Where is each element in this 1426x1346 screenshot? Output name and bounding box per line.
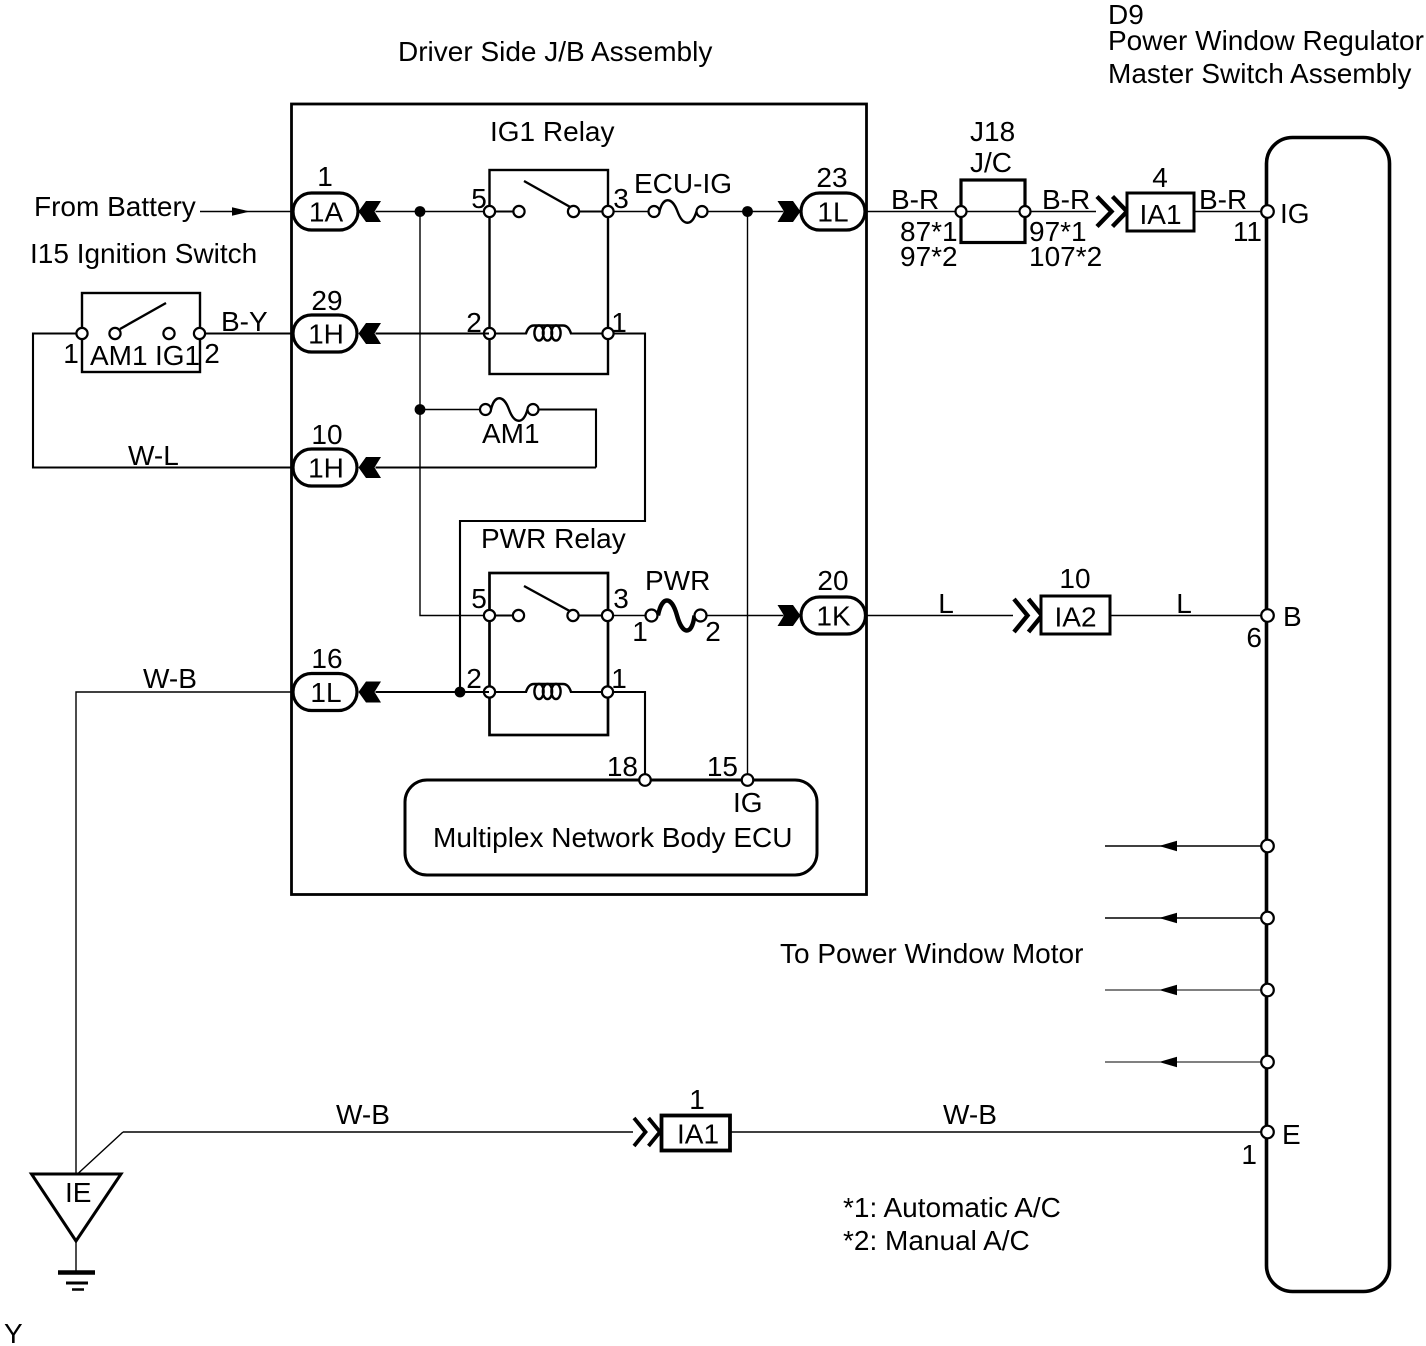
box: Driver Side J/B Assembly — [292, 104, 867, 895]
svg-text:18: 18 — [607, 751, 638, 782]
connector 1K pin 20 — [778, 565, 866, 634]
wire: IG1 coil pin 1 to PWR coil feed — [460, 334, 645, 693]
wire: power window motor line 2 with arrow — [1105, 913, 1267, 923]
pin 15 terminal on ECU — [707, 751, 763, 818]
svg-text:1: 1 — [611, 663, 627, 694]
wire: 1H/10 to AM1 fuse drop — [376, 466, 597, 468]
wire: IA1 to D9 pin 1 E, W-B — [731, 1131, 1267, 1133]
svg-text:1: 1 — [632, 616, 648, 647]
svg-text:L: L — [1176, 588, 1192, 619]
wire: 1K/20 to IA2 splice, L — [866, 615, 1014, 617]
svg-text:2: 2 — [705, 616, 721, 647]
switch I15 ignition switch body — [76, 293, 205, 372]
svg-text:3: 3 — [613, 583, 629, 614]
svg-text:J/C: J/C — [970, 147, 1012, 178]
wire: ground stem — [75, 1241, 77, 1272]
wire: ground W-B run to IA1 splice — [78, 1132, 633, 1174]
connector IA1 pin 1 (ground) — [662, 1084, 731, 1151]
wire: power window motor line 1 with arrow — [1105, 841, 1267, 851]
label: D9 Power Window Regulator Master Switch Assembly — [1108, 0, 1424, 89]
wire: 1L/16 to PWR relay coil pin 2 — [376, 691, 490, 693]
wire: PWR fuse feed — [614, 615, 784, 617]
relay IG1 body — [490, 170, 609, 374]
fuse ECU-IG — [649, 200, 708, 223]
svg-text:IG1 Relay: IG1 Relay — [490, 116, 615, 147]
svg-text:11: 11 — [1233, 216, 1262, 247]
svg-text:Driver Side J/B Assembly: Driver Side J/B Assembly — [398, 36, 712, 67]
pin 1 E terminal on D9 — [1241, 1119, 1300, 1170]
svg-text:1A: 1A — [309, 197, 344, 228]
connector 1H pin 29 — [293, 285, 381, 352]
svg-text:29: 29 — [311, 285, 342, 316]
svg-text:16: 16 — [311, 643, 342, 674]
svg-text:4: 4 — [1152, 162, 1168, 193]
wire: 1A to IG1 relay pin 5 — [376, 211, 490, 213]
svg-text:W-B: W-B — [336, 1099, 390, 1130]
svg-text:Multiplex Network Body ECU: Multiplex Network Body ECU — [433, 822, 792, 853]
IG1 relay contact pins 5 and 3 — [484, 181, 614, 217]
fuse PWR — [646, 601, 707, 631]
svg-text:IG: IG — [733, 787, 763, 818]
svg-text:From Battery: From Battery — [34, 191, 196, 222]
fuse AM1 — [480, 398, 539, 421]
wire: W-B ground wire from 1L/16 — [76, 692, 293, 1173]
svg-text:AM1: AM1 — [482, 418, 540, 449]
relay PWR body — [490, 573, 609, 735]
svg-text:PWR Relay: PWR Relay — [481, 523, 626, 554]
svg-text:1H: 1H — [308, 453, 344, 484]
connector 1A pin 1 — [293, 161, 381, 230]
wire: ignition switch pin 2 to 1H/29, B-Y — [205, 332, 293, 334]
wire: PWR coil pin 1 to Multiplex ECU pin 18 — [614, 692, 646, 780]
pin 18 terminal on ECU — [607, 751, 651, 786]
wire: battery bus down to PWR relay pin 5 — [420, 212, 489, 616]
node: ECU-IG output junction — [742, 206, 753, 217]
svg-text:10: 10 — [1059, 563, 1090, 594]
pin 6 B terminal on D9 — [1246, 601, 1301, 653]
ground IE body triangle — [32, 1174, 122, 1241]
svg-text:Master Switch Assembly: Master Switch Assembly — [1108, 58, 1411, 89]
svg-text:1: 1 — [63, 338, 79, 369]
wire: junction down to Multiplex ECU pin 15 — [747, 212, 749, 781]
svg-text:IG: IG — [1280, 198, 1310, 229]
pin terminal on D9 (motor line 1) — [1261, 840, 1274, 853]
IG1 relay coil pins 2 and 1 — [484, 325, 614, 340]
connector 1H pin 10 — [293, 419, 381, 486]
svg-text:AM1: AM1 — [90, 340, 148, 371]
wire: ECU-IG fuse feed — [614, 211, 784, 213]
pin terminal on D9 (motor line 3) — [1261, 984, 1274, 997]
svg-text:3: 3 — [613, 183, 629, 214]
svg-text:*2: Manual A/C: *2: Manual A/C — [843, 1225, 1030, 1256]
pin terminal on D9 (motor line 4) — [1261, 1056, 1274, 1069]
wire: power window motor line 4 with arrow — [1105, 1057, 1267, 1067]
svg-text:IA1: IA1 — [677, 1119, 719, 1150]
svg-text:107*2: 107*2 — [1029, 241, 1102, 272]
svg-text:1L: 1L — [817, 197, 848, 228]
wire: 1H/29 to IG1 relay coil pin 2 — [376, 332, 490, 334]
svg-text:B: B — [1283, 601, 1302, 632]
wire: AM1 fuse to 1H/10 row — [539, 410, 597, 468]
pin 11 IG terminal on D9 — [1233, 198, 1310, 247]
PWR relay contact pins 5 and 3 — [484, 586, 613, 621]
node: AM1 fuse junction — [415, 404, 426, 415]
splice chevrons into IA1 (ground) — [634, 1118, 660, 1146]
svg-text:B-R: B-R — [1199, 184, 1247, 215]
svg-text:*1: Automatic A/C: *1: Automatic A/C — [843, 1192, 1061, 1223]
svg-text:W-L: W-L — [128, 440, 179, 471]
splice chevrons into IA2 — [1014, 599, 1042, 632]
ECU: Multiplex Network Body ECU body — [405, 780, 817, 875]
svg-text:1L: 1L — [310, 677, 341, 708]
pin numbers 87*1 97*2 (J18 left) — [900, 216, 958, 272]
connector IA2 pin 10 — [1041, 563, 1110, 634]
connector IA1 pin 4 — [1127, 162, 1194, 231]
svg-text:10: 10 — [311, 419, 342, 450]
pin numbers 97*1 107*2 (J18 right) — [1029, 216, 1102, 272]
connector 1L pin 23 — [778, 162, 866, 230]
svg-text:To Power Window Motor: To Power Window Motor — [780, 938, 1083, 969]
svg-text:2: 2 — [466, 663, 482, 694]
svg-text:IG1: IG1 — [155, 340, 200, 371]
svg-text:15: 15 — [707, 751, 738, 782]
splice chevrons into IA1 — [1097, 197, 1127, 227]
svg-text:5: 5 — [471, 583, 487, 614]
svg-text:1: 1 — [689, 1084, 705, 1115]
svg-text:J18: J18 — [970, 116, 1015, 147]
svg-text:E: E — [1282, 1119, 1301, 1150]
svg-text:1H: 1H — [308, 319, 344, 350]
svg-text:ECU-IG: ECU-IG — [634, 168, 732, 199]
wire: power window motor line 3 with arrow — [1105, 985, 1267, 995]
wire: J/C to IA1 splice — [1031, 211, 1097, 213]
svg-text:20: 20 — [817, 565, 848, 596]
svg-text:97*2: 97*2 — [900, 241, 958, 272]
svg-text:B-R: B-R — [1042, 184, 1090, 215]
wire: AM1 fuse feed from battery bus — [420, 409, 480, 411]
node: PWR coil feed junction — [455, 687, 466, 698]
svg-text:2: 2 — [204, 338, 220, 369]
svg-text:B-R: B-R — [891, 184, 939, 215]
svg-text:IA2: IA2 — [1054, 602, 1096, 633]
svg-text:PWR: PWR — [645, 565, 710, 596]
wire: IA2 to D9 pin 6, L — [1110, 615, 1267, 617]
svg-text:1K: 1K — [816, 601, 851, 632]
ground symbol bars — [58, 1273, 95, 1290]
wire: IA1 to D9 pin 11, B-R — [1194, 211, 1267, 213]
svg-text:W-B: W-B — [143, 663, 197, 694]
svg-text:L: L — [938, 588, 954, 619]
svg-text:IE: IE — [65, 1177, 91, 1208]
svg-text:1: 1 — [1241, 1139, 1257, 1170]
svg-text:IA1: IA1 — [1139, 199, 1181, 230]
wire: 1L/23 to J18 junction connector, B-R — [865, 211, 961, 213]
svg-text:Y: Y — [4, 1318, 23, 1346]
svg-text:6: 6 — [1246, 622, 1262, 653]
wire: battery feed with arrow — [200, 207, 291, 216]
svg-text:1: 1 — [317, 161, 333, 192]
pin terminal on D9 (motor line 2) — [1261, 912, 1274, 925]
svg-text:5: 5 — [471, 183, 487, 214]
svg-text:B-Y: B-Y — [221, 306, 268, 337]
connector D9 Power Window Regulator Master Switch Assembly body — [1267, 138, 1390, 1292]
PWR relay coil pins 2 and 1 — [484, 684, 613, 699]
node: battery bus junction — [415, 206, 426, 217]
svg-text:I15 Ignition Switch: I15 Ignition Switch — [30, 238, 257, 269]
junction connector J18 J/C — [956, 180, 1031, 243]
svg-text:23: 23 — [816, 162, 847, 193]
wire: ignition switch pin 1 loop down to 1H/10, W-L — [33, 334, 293, 468]
svg-text:Power Window Regulator: Power Window Regulator — [1108, 25, 1424, 56]
svg-text:W-B: W-B — [943, 1099, 997, 1130]
connector 1L pin 16 — [293, 643, 381, 711]
